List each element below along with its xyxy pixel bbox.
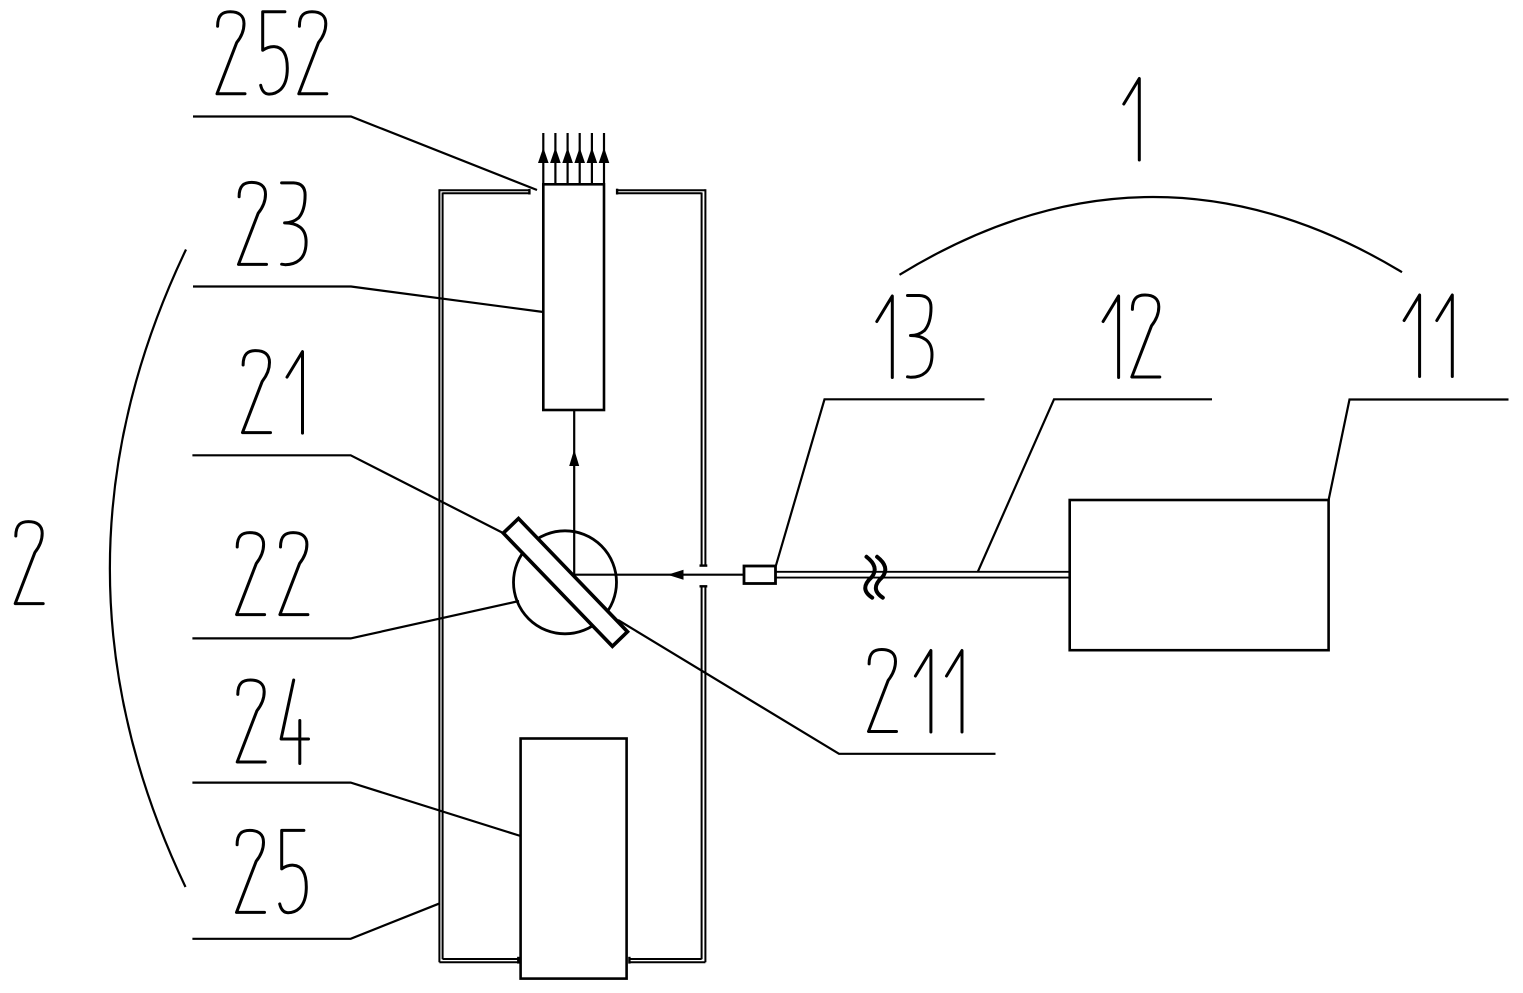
housing 2 top edge right segment start cap — [616, 189, 618, 195]
label 23 leader — [193, 287, 543, 313]
housing 2 top edge outer right segment — [617, 189, 705, 191]
collimator block 13 — [744, 566, 776, 584]
housing 2 right wall outer line lower — [704, 587, 706, 963]
housing 2 right wall outer line upper — [704, 189, 706, 566]
housing 2 right wall inner line lower — [701, 587, 703, 959]
label 22 leader — [192, 601, 519, 638]
label 11 leader — [1329, 400, 1509, 501]
label 22 digits — [237, 533, 308, 615]
label 12 digits — [1103, 295, 1160, 378]
vertical beam from mirror to 23 — [573, 410, 575, 576]
housing 2 top edge left segment end cap — [528, 189, 530, 195]
label 21 leader — [192, 455, 503, 533]
housing 2 bottom edge right cap — [628, 957, 630, 964]
housing 2 right wall gap cap bottom — [700, 585, 708, 587]
housing 2 right wall gap cap top — [700, 564, 708, 566]
radiation arrowheads above 23 — [538, 148, 609, 164]
label 252 leader — [193, 117, 537, 191]
housing 2 bottom edge left cap — [517, 957, 519, 964]
label 2 digit — [15, 522, 43, 604]
horizontal beam arrowhead — [668, 570, 684, 580]
label 24 leader — [192, 783, 520, 836]
housing 2 bottom edge inner right segment — [629, 958, 701, 960]
housing 2 bottom edge inner left segment — [443, 958, 519, 960]
label 211 leader — [618, 620, 996, 754]
horizontal beam from 13 to mirror — [574, 574, 744, 576]
fiber break symbol left squiggle — [865, 557, 874, 598]
radiation arrow lines above 23 — [543, 133, 604, 183]
label 13 leader — [776, 399, 985, 566]
vertical beam arrowhead — [569, 450, 579, 467]
optical fiber 12 upper line — [776, 571, 1070, 573]
light source box 11 — [1070, 500, 1329, 650]
emitter block 23 — [543, 184, 604, 410]
label 24 digits — [237, 680, 308, 764]
label 252 digits — [217, 12, 327, 94]
housing 2 top edge inner left segment — [443, 192, 530, 194]
fiber break symbol right squiggle — [876, 557, 885, 598]
label 12 leader — [978, 399, 1212, 572]
housing 2 top edge inner right segment — [617, 192, 702, 194]
housing 2 right wall inner line upper — [701, 193, 703, 566]
label 21 digits — [243, 351, 303, 434]
label 13 digits — [877, 296, 932, 378]
housing 2 left wall inner line — [442, 193, 444, 960]
label 25 leader — [192, 903, 439, 939]
label 11 digits — [1404, 295, 1452, 377]
housing 2 left wall outer line — [438, 189, 440, 962]
label 1 digit — [1124, 79, 1140, 161]
housing 2 bottom edge outer left segment — [439, 961, 518, 963]
optical fiber 12 lower line — [776, 577, 1070, 579]
housing 2 top edge outer left segment — [439, 189, 529, 191]
detector block 24 — [521, 739, 627, 979]
mirror plate 21 — [503, 519, 627, 647]
beam splitter circle 22 — [514, 531, 617, 634]
label 211 digits — [869, 650, 963, 733]
label 23 digits — [239, 182, 307, 264]
label 2 brace arc — [110, 250, 186, 888]
label 25 digits — [237, 830, 307, 912]
housing 2 bottom edge outer right segment — [629, 961, 705, 963]
label 1 brace arc — [900, 197, 1403, 275]
